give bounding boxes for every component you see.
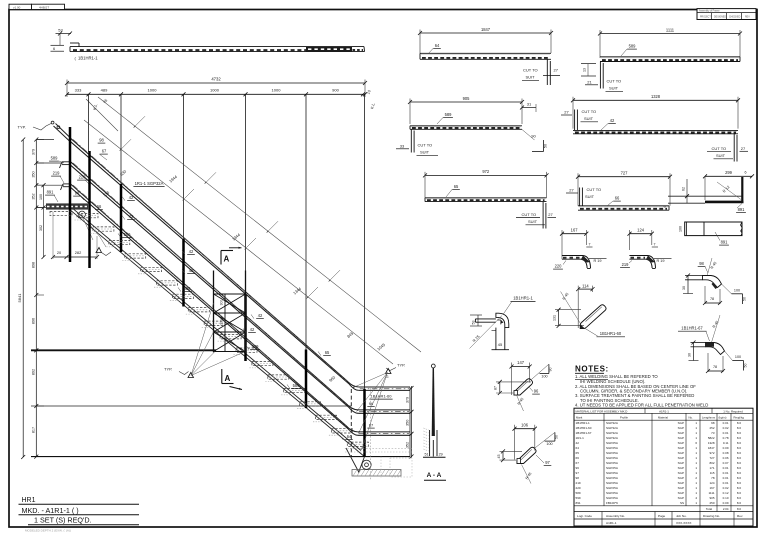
svg-text:1111: 1111: [666, 27, 675, 32]
svg-text:SGP: SGP: [678, 451, 684, 455]
svg-text:78: 78: [710, 297, 714, 301]
svg-text:NOTES:: NOTES:: [575, 365, 609, 374]
svg-text:CUT TO: CUT TO: [607, 79, 622, 84]
svg-text:8.0: 8.0: [737, 486, 742, 490]
left dim chain: [35, 140, 37, 458]
svg-text:300: 300: [220, 319, 224, 325]
svg-text:6: 6: [663, 205, 667, 207]
mid rail 2 diagonal + landing: [70, 184, 346, 426]
svg-text:7: 7: [589, 243, 591, 247]
svg-text:0.78: 0.78: [723, 436, 729, 440]
svg-text:v1.00: v1.00: [13, 5, 21, 9]
svg-text:8.0: 8.0: [737, 436, 742, 440]
svg-text:905: 905: [463, 96, 471, 101]
top end fitting 1B1HR1-67: [56, 124, 71, 138]
svg-text:SGP: SGP: [678, 476, 684, 480]
98 right ref 100/50: [722, 284, 732, 294]
svg-text:67: 67: [576, 461, 580, 465]
svg-text:589: 589: [184, 286, 192, 291]
svg-text:252: 252: [709, 426, 714, 430]
svg-text:1B1HR1-67: 1B1HR1-67: [576, 431, 592, 435]
dim 62: [686, 179, 688, 203]
svg-text:97: 97: [545, 460, 550, 465]
svg-text:No.: No.: [689, 415, 694, 419]
svg-text:115: 115: [710, 471, 715, 475]
svg-text:100: 100: [735, 355, 741, 359]
97 right ref 100/50: [535, 433, 555, 449]
svg-text:250: 250: [709, 501, 714, 505]
svg-text:727: 727: [709, 456, 714, 460]
svg-text:131: 131: [553, 315, 557, 321]
67 bottom dim 78: [707, 353, 709, 372]
detail rail 65 L=972: [425, 174, 547, 176]
svg-text:27: 27: [741, 146, 746, 151]
svg-text:XXX-XXXX: XXX-XXXX: [676, 521, 691, 525]
svg-text:SGP32A: SGP32A: [606, 436, 619, 440]
right dim chain at landing: [411, 386, 413, 458]
detail 905 left tail: [410, 129, 412, 152]
svg-text:8.0: 8.0: [737, 421, 742, 425]
svg-text:64: 64: [435, 43, 440, 48]
96 left dim 87: [499, 382, 501, 393]
svg-text:SGP: SGP: [678, 421, 684, 425]
svg-text:SGP32A: SGP32A: [606, 426, 619, 430]
bottom floor line: [31, 456, 410, 458]
detail rail 66 L=727: [578, 176, 670, 178]
svg-text:300: 300: [220, 300, 224, 306]
svg-text:98: 98: [711, 421, 715, 425]
svg-text:67: 67: [102, 149, 107, 154]
svg-text:27: 27: [548, 212, 553, 217]
stair treads (dashed): [50, 212, 72, 216]
svg-text:1847: 1847: [481, 27, 491, 32]
60 left dim 131: [558, 310, 560, 326]
svg-text:98: 98: [699, 261, 704, 266]
svg-text:Assembly No.: Assembly No.: [606, 514, 625, 518]
svg-text:4732: 4732: [211, 77, 221, 82]
svg-text:1328: 1328: [708, 441, 715, 445]
stringer end cut: [346, 448, 359, 473]
svg-text:A: A: [224, 255, 230, 264]
kick plate FB 891 elevation: [46, 203, 88, 209]
svg-text:282: 282: [75, 250, 82, 255]
svg-text:SGP25A: SGP25A: [606, 471, 619, 475]
svg-text:124: 124: [637, 228, 645, 233]
svg-text:1328: 1328: [651, 94, 661, 99]
grid line x=306: [305, 94, 307, 349]
svg-text:CUT TO: CUT TO: [587, 187, 602, 192]
svg-text:1R1-1: 1R1-1: [576, 436, 585, 440]
svg-text:220: 220: [576, 486, 581, 490]
svg-text:1847: 1847: [708, 446, 715, 450]
detail bent end 1B1HR1-60: [578, 288, 592, 290]
floor line lower thin: [31, 405, 351, 407]
svg-text:SGP: SGP: [678, 431, 684, 435]
dim 31 right: [522, 107, 536, 109]
svg-text:0.01: 0.01: [723, 421, 729, 425]
svg-text:Reqd/kg: Reqd/kg: [734, 415, 745, 419]
handrail post x=70: [69, 127, 72, 262]
svg-text:SGP25A: SGP25A: [606, 491, 619, 495]
svg-text:87: 87: [494, 386, 498, 390]
mid1 wall stub: [62, 161, 70, 163]
67 piece body: [706, 343, 725, 355]
svg-text:891: 891: [721, 240, 729, 245]
svg-text:599: 599: [576, 496, 581, 500]
96 right ref 100/90: [531, 365, 549, 380]
svg-text:90: 90: [549, 368, 553, 372]
98 piece body: [703, 276, 722, 288]
detail 42 right tail: [733, 134, 735, 162]
svg-text:905: 905: [709, 496, 714, 500]
handrail post x=89.5: [88, 151, 91, 268]
svg-text:8.0: 8.0: [737, 507, 741, 511]
svg-text:0.09: 0.09: [723, 501, 729, 505]
svg-text:SUIT: SUIT: [716, 153, 726, 158]
svg-text:8.0: 8.0: [737, 446, 742, 450]
svg-text:350: 350: [31, 171, 35, 177]
svg-text:13: 13: [583, 68, 587, 72]
svg-text:Rev: Rev: [737, 514, 743, 518]
detail 42 left stub: [574, 110, 576, 131]
svg-text:Job No.: Job No.: [676, 514, 687, 518]
detail 589 left tail: [599, 62, 601, 89]
svg-text:8.0: 8.0: [737, 451, 742, 455]
detail 65 right tail: [542, 202, 544, 229]
weld circle symbol: [79, 211, 86, 218]
svg-text:1B1HR1-60: 1B1HR1-60: [576, 426, 592, 430]
svg-text:SGP: SGP: [678, 461, 684, 465]
svg-text:CUT TO: CUT TO: [712, 146, 727, 151]
svg-text:CHECKED: CHECKED: [729, 16, 741, 18]
svg-text:SGP: SGP: [678, 436, 684, 440]
1B1HR1-1 left stub: [475, 318, 496, 320]
svg-text:SUIT: SUIT: [526, 75, 536, 80]
stair base plate detail: [352, 470, 401, 477]
svg-text:SGP: SGP: [678, 481, 684, 485]
svg-text:Logi. Code: Logi. Code: [577, 514, 592, 518]
handrail post x=183.5: [182, 239, 185, 307]
svg-text:379: 379: [31, 149, 35, 155]
svg-text:8.0: 8.0: [737, 471, 742, 475]
svg-text:SGP: SGP: [678, 486, 684, 490]
svg-text:0.07: 0.07: [723, 461, 729, 465]
svg-text:4. UT NEEDS TO BE APPLIED FOR: 4. UT NEEDS TO BE APPLIED FOR ALL FULL P…: [575, 402, 708, 407]
svg-text:66: 66: [97, 204, 102, 209]
svg-text:21: 21: [587, 80, 592, 85]
svg-text:96: 96: [369, 401, 374, 406]
detail bent piece 96 L=147: [512, 366, 530, 368]
svg-text:SGP: SGP: [678, 491, 684, 495]
svg-text:CUT TO: CUT TO: [522, 212, 537, 217]
svg-text:891: 891: [576, 501, 581, 505]
svg-text:MKD. - A1R1-1 ( ): MKD. - A1R1-1 ( ): [22, 506, 79, 515]
svg-text:167: 167: [571, 228, 579, 233]
svg-text:900: 900: [332, 87, 339, 92]
svg-text:27: 27: [564, 110, 569, 115]
svg-text:SGP25A: SGP25A: [606, 481, 619, 485]
sub dim 100/302: [43, 185, 45, 257]
svg-text:MODELED DEPTH 2 (EXW. (' (A: MODELED DEPTH 2 (EXW. (' (A)): [25, 529, 71, 533]
handrail post x=364.5: [363, 389, 366, 457]
weld flag bottom-left: [96, 248, 102, 253]
svg-text:42: 42: [610, 118, 615, 123]
svg-text:TYP.: TYP.: [18, 125, 26, 130]
svg-text:SUIT: SUIT: [528, 219, 538, 224]
svg-text:220: 220: [555, 264, 563, 269]
top rail 1R1-1 diagonal + landing: [70, 138, 347, 381]
detail rail 589 L=1111: [600, 33, 740, 35]
svg-text:891: 891: [738, 207, 746, 212]
svg-text:SGP: SGP: [678, 446, 684, 450]
svg-text:SGP: SGP: [678, 471, 684, 475]
svg-text:1B1HR1-67: 1B1HR1-67: [681, 326, 703, 331]
section A-A view: [431, 364, 435, 368]
svg-text:8.0: 8.0: [737, 441, 742, 445]
handrail post x=121: [120, 184, 123, 252]
dim 53 left: [477, 315, 479, 326]
svg-text:27: 27: [569, 188, 574, 193]
mid2 wall stub: [63, 183, 70, 185]
svg-text:219: 219: [576, 481, 581, 485]
svg-text:0.02: 0.02: [723, 426, 729, 430]
svg-text:8.0: 8.0: [737, 491, 742, 495]
svg-text:1000: 1000: [272, 87, 282, 92]
svg-text:0.02: 0.02: [723, 486, 729, 490]
svg-text:0.01: 0.01: [723, 481, 729, 485]
svg-text:379: 379: [405, 397, 409, 403]
svg-text:1B1HR1-60: 1B1HR1-60: [371, 394, 393, 399]
svg-text:589: 589: [51, 156, 59, 161]
svg-text:219: 219: [622, 262, 630, 267]
svg-text:147: 147: [517, 360, 525, 365]
svg-text:124: 124: [709, 481, 714, 485]
svg-text:33: 33: [400, 144, 405, 149]
svg-text:489: 489: [101, 87, 108, 92]
svg-text:167: 167: [709, 486, 714, 490]
svg-text:589: 589: [252, 344, 260, 349]
svg-text:HR1: HR1: [22, 497, 36, 504]
svg-text:100: 100: [541, 375, 547, 379]
section marker A lower: [221, 369, 223, 384]
97 left dim 45: [502, 451, 504, 460]
plan rail hatch dashes: [73, 49, 306, 51]
svg-text:A - A: A - A: [427, 472, 442, 479]
svg-text:42: 42: [189, 268, 194, 273]
svg-text:SGP32A: SGP32A: [606, 431, 619, 435]
svg-text:TYP.: TYP.: [397, 363, 405, 368]
svg-text:896: 896: [31, 318, 35, 324]
svg-text:TYP.: TYP.: [164, 367, 172, 372]
detail bent piece 97 L=106: [515, 428, 535, 430]
svg-text:50: 50: [544, 144, 548, 148]
svg-text:A1R1-1: A1R1-1: [659, 409, 669, 413]
svg-text:1B1HR1-60: 1B1HR1-60: [600, 331, 622, 336]
svg-text:5822: 5822: [708, 436, 715, 440]
dashed vertical at stair foot: [350, 389, 352, 457]
phantom support lines: [350, 448, 412, 450]
svg-text:8.0: 8.0: [737, 461, 742, 465]
detail rail 64 L=1847: [420, 32, 551, 34]
svg-text:1B1HR1-1: 1B1HR1-1: [576, 421, 591, 425]
svg-text:51: 51: [425, 453, 429, 457]
svg-text:R 19: R 19: [594, 259, 602, 263]
svg-text:SGP: SGP: [678, 496, 684, 500]
svg-text:100: 100: [546, 442, 552, 446]
svg-text:42: 42: [258, 313, 263, 318]
svg-text:42: 42: [129, 195, 134, 200]
mid rail 64/65 diagonal + landing: [70, 161, 346, 403]
svg-text:1R1-1 SGP32A: 1R1-1 SGP32A: [135, 181, 164, 186]
svg-text:219: 219: [53, 171, 61, 176]
handrail post x=306: [305, 350, 308, 409]
floor line mid thick: [31, 349, 216, 351]
svg-text:SGP: SGP: [678, 441, 684, 445]
svg-text:333: 333: [75, 87, 82, 92]
svg-text:352: 352: [31, 193, 35, 199]
svg-text:FB100*6: FB100*6: [606, 501, 618, 505]
svg-text:(kg/m): (kg/m): [719, 415, 727, 419]
grid line x=88: [88, 94, 90, 152]
svg-text:MATERIAL LIST FOR ASSEMBLY MK.: MATERIAL LIST FOR ASSEMBLY MK.D: [576, 409, 628, 413]
svg-text:45: 45: [498, 342, 503, 347]
svg-text:50: 50: [555, 435, 559, 439]
svg-text:97: 97: [576, 471, 580, 475]
svg-text:589: 589: [124, 232, 132, 237]
svg-text:972: 972: [482, 169, 490, 174]
svg-text:42: 42: [250, 327, 255, 332]
svg-text:898: 898: [31, 262, 35, 268]
1B1HR1-1 piece: [496, 313, 509, 327]
svg-text:64: 64: [576, 446, 580, 450]
svg-text:972: 972: [709, 451, 714, 455]
svg-text:589: 589: [629, 44, 637, 49]
svg-text:220: 220: [79, 175, 87, 180]
svg-text:PROJECT: PROJECT: [700, 16, 711, 18]
svg-text:SGP25A: SGP25A: [606, 476, 619, 480]
svg-text:42: 42: [129, 214, 134, 219]
detail rail 589 L=905: [410, 101, 522, 103]
svg-text:8.0: 8.0: [737, 431, 742, 435]
plan rail left end upstand: [70, 42, 79, 44]
detail 66 left stub: [579, 188, 581, 206]
svg-text:SGP32A: SGP32A: [606, 421, 619, 425]
svg-text:50: 50: [742, 297, 746, 301]
stair stringer: [70, 206, 361, 450]
svg-text:114: 114: [582, 283, 589, 288]
svg-text:53: 53: [58, 28, 63, 33]
svg-text:5841: 5841: [17, 293, 22, 303]
svg-text:CUT TO: CUT TO: [418, 143, 433, 148]
svg-text:302: 302: [39, 225, 43, 231]
svg-text:4HB/2T: 4HB/2T: [39, 5, 49, 9]
svg-text:SGP25A: SGP25A: [606, 496, 619, 500]
svg-text:1 SET (S) REQ'D.: 1 SET (S) REQ'D.: [34, 516, 92, 525]
svg-text:A1R1-1: A1R1-1: [606, 521, 617, 525]
handrail post x=245.5: [244, 295, 247, 362]
material list table: [574, 408, 753, 526]
svg-text:42: 42: [576, 441, 580, 445]
svg-text:100: 100: [734, 289, 740, 293]
svg-text:65: 65: [576, 451, 580, 455]
svg-text:F: F: [81, 213, 83, 217]
1B1HR1-1 bottom tail + dim 45: [495, 328, 497, 350]
svg-text:0.01: 0.01: [723, 471, 729, 475]
diagonal dim line D1: [84, 120, 393, 364]
svg-text:299: 299: [725, 170, 733, 175]
svg-text:Profile: Profile: [620, 415, 628, 419]
svg-text:78: 78: [711, 476, 715, 480]
svg-text:42: 42: [189, 249, 194, 254]
svg-text:0.01: 0.01: [723, 476, 729, 480]
dim 20 282: [53, 256, 97, 258]
svg-text:78: 78: [713, 365, 717, 369]
svg-text:106: 106: [521, 422, 529, 427]
svg-text:589: 589: [576, 491, 581, 495]
svg-text:27: 27: [554, 68, 559, 73]
grid line x=364: [364, 94, 366, 388]
svg-text:A: A: [225, 374, 231, 383]
svg-text:6: 6: [53, 47, 55, 51]
svg-text:8.0: 8.0: [737, 496, 742, 500]
grid line x=183.5: [183, 94, 185, 239]
svg-text:589: 589: [445, 112, 453, 117]
svg-text:SGP: SGP: [678, 426, 684, 430]
svg-text:350: 350: [405, 420, 409, 426]
svg-text:98: 98: [99, 138, 104, 143]
svg-text:0.06: 0.06: [723, 456, 729, 460]
svg-text:8.0: 8.0: [737, 426, 742, 430]
svg-text:96: 96: [576, 466, 580, 470]
svg-text:8.0: 8.0: [737, 476, 742, 480]
svg-text:1000: 1000: [148, 87, 158, 92]
dim row 333/489/1000x3/900/10: [67, 93, 365, 95]
svg-text:SGP25A: SGP25A: [606, 466, 619, 470]
dim 4732 overall: [67, 82, 365, 84]
svg-text:98: 98: [576, 476, 580, 480]
97 piece body: [517, 447, 536, 463]
diagonal dim line D2: [98, 97, 421, 352]
svg-text:CUT TO: CUT TO: [582, 109, 597, 114]
svg-text:Drawing No.: Drawing No.: [703, 514, 720, 518]
svg-text:DESIGNED: DESIGNED: [714, 16, 726, 18]
horizontal refs to rail ends: [36, 139, 54, 141]
67 right ref 100/50: [725, 351, 733, 361]
svg-text:352: 352: [405, 442, 409, 448]
svg-text:65: 65: [454, 184, 459, 189]
svg-text:589: 589: [293, 383, 301, 388]
67 left dim 30: [691, 342, 706, 344]
svg-text:Mark: Mark: [576, 415, 583, 419]
98 bottom dim 78: [704, 286, 706, 304]
svg-text:SGP: SGP: [678, 456, 684, 460]
svg-text:0.01: 0.01: [723, 466, 729, 470]
detail flat 891 plan view: [685, 222, 742, 236]
title table top-right: [697, 9, 756, 20]
svg-text:727: 727: [621, 171, 629, 176]
svg-text:892: 892: [31, 369, 35, 375]
96 piece body: [514, 379, 533, 395]
svg-text:SGP: SGP: [678, 466, 684, 470]
cross-braced infill panel: [213, 271, 215, 353]
svg-text:Assembly of Frame: Assembly of Frame: [699, 10, 720, 13]
svg-text:R 19: R 19: [657, 259, 665, 263]
revision box top-left: [9, 4, 32, 9]
svg-text:96: 96: [534, 389, 539, 394]
plan view rail 1R1-1: [70, 46, 364, 48]
detail 64 right tail: [546, 59, 548, 85]
svg-text:50: 50: [743, 364, 747, 368]
